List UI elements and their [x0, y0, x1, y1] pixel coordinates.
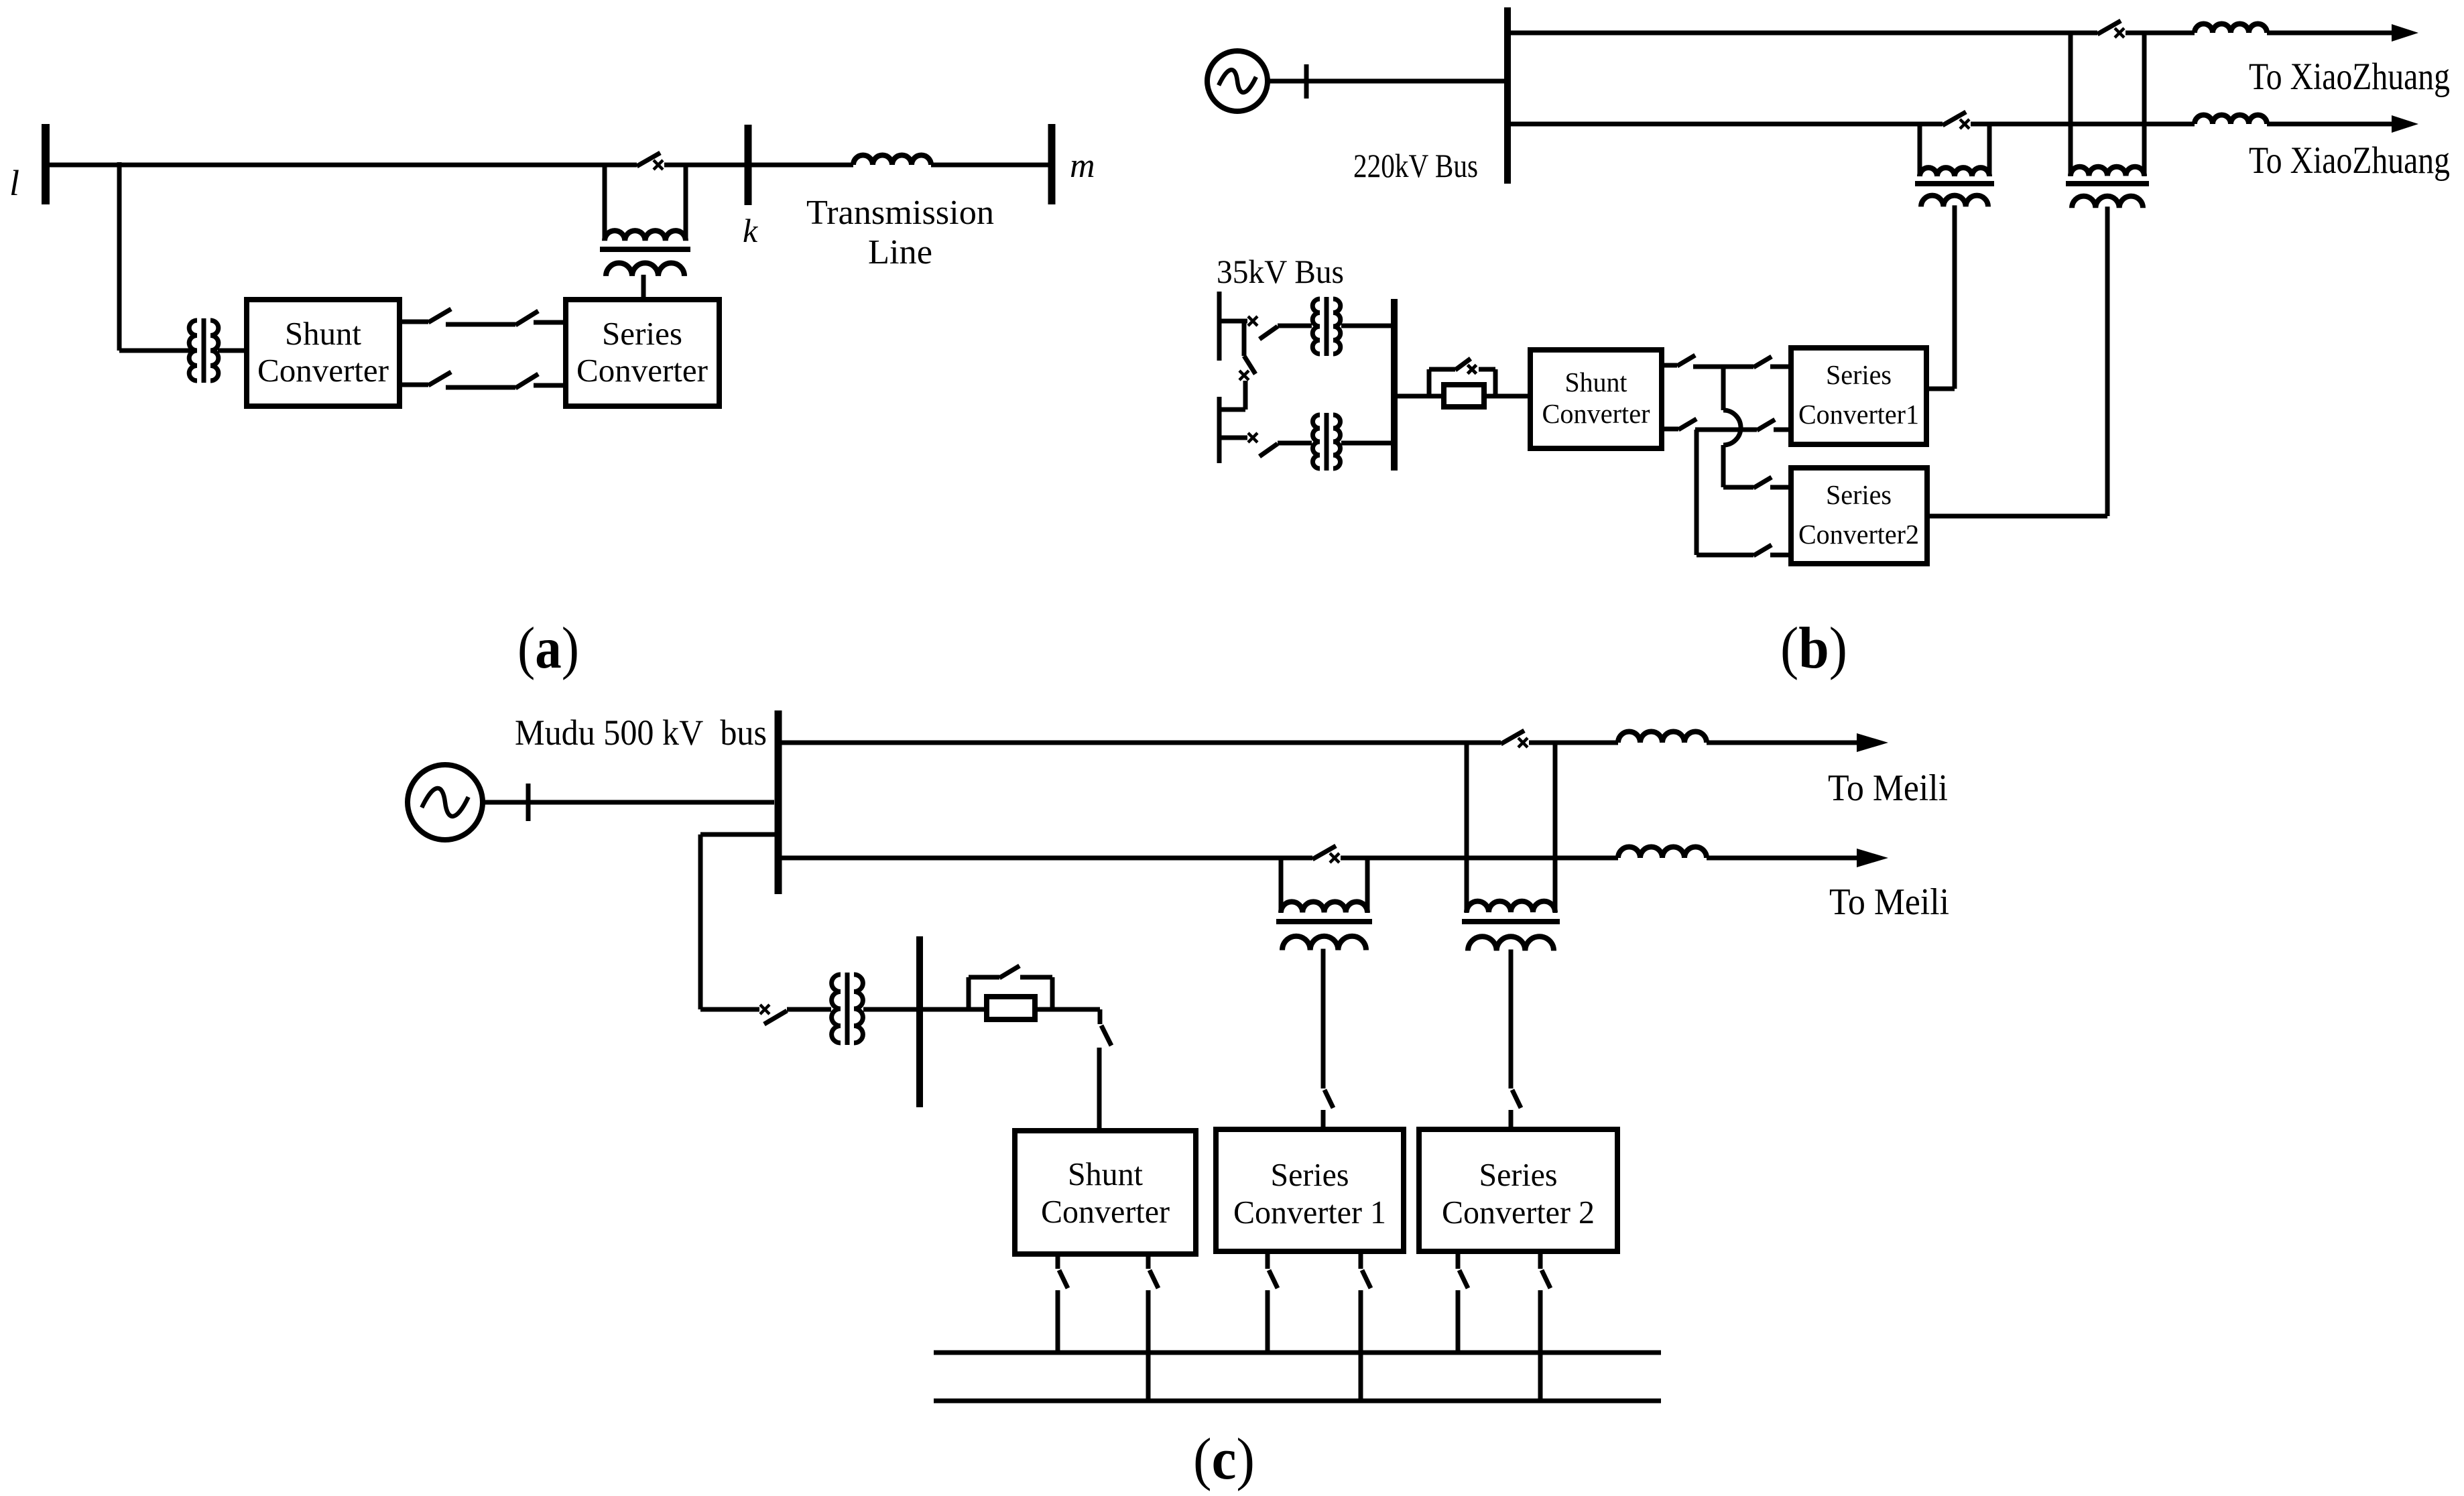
svg-text:Converter2: Converter2 — [1798, 519, 1919, 550]
svg-text:m: m — [1070, 147, 1095, 185]
svg-text:Series: Series — [1826, 359, 1892, 390]
svg-text:To XiaoZhuang: To XiaoZhuang — [2249, 139, 2450, 182]
svg-text:Converter: Converter — [576, 352, 708, 389]
svg-text:Converter: Converter — [257, 352, 389, 389]
svg-text:Mudu 500 kV bus: Mudu 500 kV bus — [515, 712, 767, 753]
svg-text:Series: Series — [602, 315, 682, 352]
svg-text:Series: Series — [1479, 1156, 1558, 1193]
svg-text:35kV Bus: 35kV Bus — [1217, 253, 1344, 290]
svg-text:Converter 1: Converter 1 — [1233, 1194, 1386, 1231]
svg-text:l: l — [9, 163, 19, 203]
svg-text:Series: Series — [1826, 479, 1892, 510]
svg-text:Transmission: Transmission — [806, 194, 994, 232]
svg-text:Shunt: Shunt — [285, 315, 361, 352]
svg-text:To Meili: To Meili — [1829, 881, 1949, 923]
svg-text:Converter: Converter — [1542, 398, 1650, 429]
svg-text:220kV Bus: 220kV Bus — [1353, 147, 1478, 184]
svg-text:To Meili: To Meili — [1828, 767, 1948, 809]
svg-text:Line: Line — [868, 233, 932, 271]
svg-text:Shunt: Shunt — [1068, 1156, 1143, 1192]
svg-text:To XiaoZhuang: To XiaoZhuang — [2249, 56, 2450, 98]
svg-text:Series: Series — [1271, 1156, 1349, 1193]
svg-text:Converter: Converter — [1041, 1193, 1170, 1230]
svg-text:k: k — [743, 212, 758, 249]
svg-text:(c): (c) — [1193, 1427, 1255, 1492]
svg-text:(a): (a) — [517, 616, 579, 681]
svg-text:(b): (b) — [1780, 616, 1847, 681]
svg-text:Converter 2: Converter 2 — [1442, 1194, 1595, 1231]
svg-text:Shunt: Shunt — [1565, 367, 1628, 397]
svg-text:Converter1: Converter1 — [1798, 399, 1919, 430]
